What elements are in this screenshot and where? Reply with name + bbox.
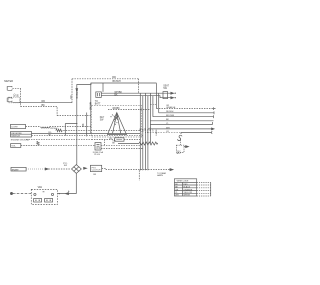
engine box [31, 189, 57, 204]
key switch fan [108, 113, 127, 135]
relay box K1 [90, 165, 101, 171]
svg-text:RD: RD [112, 76, 116, 79]
svg-text:BK: BK [114, 94, 118, 96]
svg-text:HARN: HARN [155, 129, 158, 135]
wire zigzag mid [56, 129, 63, 132]
wire riser left [71, 79, 73, 103]
wire relay right [102, 169, 170, 170]
wire BK mid [32, 135, 143, 137]
svg-text:CLUTCH: CLUTCH [92, 170, 101, 172]
svg-text:BK/WH: BK/WH [76, 90, 79, 98]
wire to engine [58, 193, 77, 195]
box brake switch [11, 167, 26, 171]
solenoid coil [37, 142, 39, 146]
wire stub [102, 83, 104, 92]
wire ignition RD [108, 109, 150, 111]
svg-text:BRAKE: BRAKE [12, 168, 20, 171]
seat switch S1 [163, 85, 176, 99]
svg-text:SW: SW [64, 165, 67, 167]
svg-text:ORANGE: ORANGE [183, 188, 193, 191]
svg-text:LIGHT: LIGHT [11, 127, 18, 129]
svg-text:RED: RED [183, 184, 188, 186]
wire diamond drop [75, 173, 77, 193]
right wire 3 [153, 116, 214, 118]
wire from fuse holder [26, 126, 41, 128]
svg-text:RD: RD [175, 184, 178, 186]
svg-text:BK: BK [42, 104, 46, 107]
wire fuse left [38, 144, 95, 146]
svg-text:RD: RD [70, 95, 73, 99]
svg-text:HARN: HARN [157, 174, 163, 177]
svg-text:BK: BK [83, 123, 85, 127]
wire branch connector [65, 124, 77, 136]
fuse box F1 [95, 143, 101, 151]
svg-text:RD/WH: RD/WH [166, 111, 174, 113]
wire RD [12, 102, 72, 104]
svg-text:BK/WH: BK/WH [113, 80, 121, 83]
vertical bus 4 [147, 96, 149, 171]
right wire 6 [148, 128, 212, 130]
svg-text:RD/BK: RD/BK [113, 108, 121, 110]
hour meter M1 [7, 86, 12, 90]
svg-text:BATT.: BATT. [95, 102, 101, 105]
legend table [174, 179, 210, 196]
svg-text:RD: RD [42, 100, 46, 103]
wire seat 2 [101, 96, 171, 98]
wire fuse right [101, 144, 140, 146]
wire to module left [92, 139, 115, 141]
right wire 7 [145, 132, 181, 134]
S hook [178, 135, 182, 140]
vertical bus 5 [149, 93, 151, 143]
vertical bus 3 [144, 93, 146, 170]
main harness block [92, 106, 142, 138]
svg-text:PLUG: PLUG [94, 154, 100, 156]
svg-text:SWITCH: SWITCH [11, 135, 20, 137]
wire drop to rear harness [138, 170, 140, 180]
vertical bus 2 [142, 96, 144, 171]
wire seat 1 [101, 92, 171, 94]
wire riser inner [86, 113, 88, 137]
box solenoid [11, 144, 21, 148]
battery connector J1 [96, 92, 102, 98]
svg-text:WHITE: WHITE [183, 195, 190, 197]
wire solenoid [21, 145, 38, 147]
box reverse switch [11, 132, 32, 138]
wire brake [26, 168, 45, 170]
accessory box [176, 145, 184, 152]
svg-text:YELLOW: YELLOW [183, 192, 192, 194]
wire engine [26, 139, 92, 141]
wire top RD [72, 78, 139, 80]
right wire 4 [150, 120, 213, 122]
connector ring X1 [72, 165, 82, 174]
wire top BK/WH [77, 83, 157, 165]
wire to module right [124, 139, 140, 141]
right wire 1 [157, 108, 214, 110]
svg-text:WIRE CODE: WIRE CODE [177, 181, 189, 183]
svg-text:METER: METER [4, 80, 13, 83]
wire engine left [13, 193, 32, 195]
vertical bus 1 [139, 93, 141, 170]
svg-text:RD: RD [15, 93, 17, 97]
wire branch into block [57, 115, 91, 117]
interlock module box [115, 138, 125, 141]
bus jog [150, 103, 156, 105]
vertical bus 8 [158, 93, 160, 113]
wire fuse right 2 [101, 147, 143, 149]
box fuse holder [11, 124, 26, 128]
wire drop to battery connector [90, 83, 92, 134]
wire vertical node [20, 88, 22, 106]
wire cont [50, 126, 92, 128]
coil symbol [41, 127, 50, 128]
wire RD mid [32, 133, 141, 135]
svg-text:BK: BK [17, 93, 19, 97]
svg-text:BLACK: BLACK [183, 186, 190, 189]
svg-text:ACC: ACC [177, 152, 182, 155]
wire drop at 138.5 [138, 79, 140, 93]
svg-text:WH: WH [166, 127, 170, 129]
right wire 2 [159, 112, 214, 114]
connector box around L1 [9, 97, 20, 103]
drop to fuse wire [104, 140, 106, 146]
arrow down on riser [76, 89, 78, 92]
wire M1 to node [12, 87, 20, 89]
right wire 5 [150, 124, 212, 126]
vertical bus 6 [152, 96, 154, 117]
terminal dot [10, 192, 12, 194]
vertical bus 7 [156, 83, 158, 108]
svg-text:OR: OR [175, 189, 179, 191]
svg-text:SOL.: SOL. [11, 146, 16, 148]
box engine plug [11, 139, 30, 141]
svg-text:ORANGE: ORANGE [166, 106, 176, 109]
arrow to relay [84, 167, 87, 169]
wire BK [21, 106, 58, 115]
svg-text:WH: WH [175, 195, 179, 197]
svg-text:VAN: VAN [38, 186, 43, 189]
indicator lamp L1 [7, 98, 12, 102]
svg-text:BROWN: BROWN [166, 115, 175, 117]
